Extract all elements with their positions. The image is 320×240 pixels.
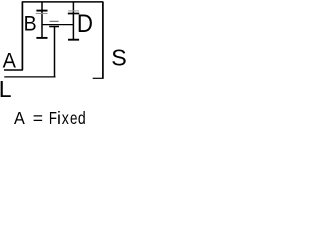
- svg-text:B: B: [24, 13, 37, 36]
- svg-text:e: e: [70, 110, 77, 129]
- wire terminal L: [4, 76, 55, 78]
- svg-text:i: i: [57, 108, 61, 128]
- svg-text:A: A: [3, 49, 17, 73]
- element B upper plate: [36, 10, 47, 12]
- wire top bus: [22, 1, 103, 3]
- capacitor C-mid top plate: [50, 20, 59, 22]
- svg-text:S: S: [111, 44, 126, 70]
- svg-text:A: A: [14, 109, 25, 129]
- element B bottom end bar: [36, 37, 47, 39]
- element D vertical line: [72, 2, 74, 40]
- wire terminal S: [93, 77, 104, 79]
- wire middle horizontal B to D: [42, 24, 74, 26]
- capacitor C-mid bottom plate: [49, 26, 59, 28]
- wire terminal A: [4, 69, 23, 71]
- svg-text:x: x: [62, 110, 69, 129]
- svg-text:=: =: [33, 108, 43, 128]
- caption A = Fixed: [14, 108, 86, 129]
- svg-text:F: F: [49, 109, 57, 128]
- svg-text:d: d: [78, 110, 86, 129]
- svg-text:D: D: [77, 10, 93, 37]
- element D lower plate: [68, 13, 79, 15]
- element B lower plate: [36, 13, 48, 15]
- wire left rail: [21, 2, 23, 71]
- capacitor C-mid lead down: [54, 27, 56, 78]
- svg-text:L: L: [0, 76, 12, 102]
- element D bottom end bar: [68, 39, 79, 41]
- element D upper plate: [68, 10, 79, 12]
- element B vertical line: [41, 2, 43, 38]
- wire right rail: [102, 2, 104, 79]
